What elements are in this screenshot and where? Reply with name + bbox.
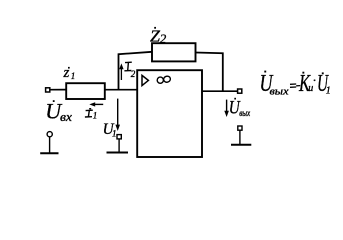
output terminal square <box>238 89 242 93</box>
label I1 <box>85 108 97 121</box>
svg-text:вых: вых <box>239 108 250 118</box>
svg-text:вх: вх <box>60 109 72 124</box>
label U_vyx (at arrow) <box>229 98 250 119</box>
svg-text:1: 1 <box>71 71 76 81</box>
label I2 <box>124 62 135 79</box>
svg-text:2: 2 <box>160 31 167 46</box>
label U_vx input voltage <box>45 99 72 124</box>
wire Z1 to op-amp input, with junction node A <box>105 89 137 91</box>
input terminal square <box>46 88 50 92</box>
svg-text:1: 1 <box>93 111 98 121</box>
op-amp gain symbol: triangle <box>142 75 148 85</box>
svg-text:1: 1 <box>326 86 331 97</box>
wire input terminal to Z1 <box>50 89 66 91</box>
output wire from op-amp <box>202 90 238 92</box>
op-amp U1 (ideal amplifier box) <box>137 70 202 157</box>
ground (under U1) with square terminal <box>107 135 129 153</box>
svg-text:вых: вых <box>270 87 290 98</box>
ground (right, output) with square terminal <box>231 126 251 145</box>
current arrow I2 (pointing up) <box>119 63 123 80</box>
svg-text:2: 2 <box>131 69 136 79</box>
ground (left, input) with open-circle terminal <box>40 132 58 154</box>
label Z1 value <box>63 65 76 81</box>
label Z2 value <box>150 26 167 46</box>
feedback wire: Z2 to output node <box>196 53 223 92</box>
label U1 <box>103 121 117 139</box>
svg-text:1: 1 <box>112 129 117 139</box>
svg-text:·: · <box>313 73 316 88</box>
voltage arrow U_vyx (output, pointing down) <box>224 100 229 117</box>
voltage arrow U1 (node A down to ground) <box>115 99 120 131</box>
op-amp infinity symbol <box>157 75 171 83</box>
resistor Z1 <box>66 83 105 99</box>
feedback wire: up from node A <box>119 52 153 90</box>
equation U_vyx = -K_u * U_1 <box>260 71 331 98</box>
current arrow I1 (pointing left) <box>89 102 103 106</box>
impedance Z2 (feedback) <box>152 43 196 61</box>
